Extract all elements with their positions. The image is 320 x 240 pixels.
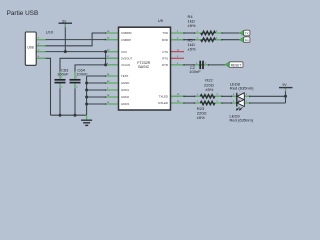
ground symbol — [81, 120, 92, 125]
svg-text:±5%: ±5% — [188, 46, 196, 51]
svg-text:Partie USB: Partie USB — [7, 10, 39, 17]
resistor R23 — [200, 101, 215, 104]
capacitor C63 — [55, 79, 66, 81]
net flag RX — [239, 37, 250, 43]
wire USB p4 down to ground bus — [36, 58, 51, 115]
svg-text:±5%: ±5% — [205, 87, 213, 92]
wire 5V-1 drop — [64, 23, 66, 51]
svg-text:TXLED: TXLED — [159, 94, 168, 98]
svg-text:RX: RX — [245, 38, 249, 42]
wire RXLED to LED9 to 5V — [171, 102, 286, 104]
green stub ground — [86, 115, 88, 119]
svg-text:CTS: CTS — [162, 50, 168, 54]
svg-text:VCCIO: VCCIO — [121, 63, 131, 67]
green stub C63 top — [59, 72, 61, 80]
green pin stubs IC right — [171, 33, 185, 103]
wire C63 top to 3V3OUT — [60, 58, 119, 79]
svg-text:TEST: TEST — [121, 74, 129, 78]
capacitor C2 — [199, 61, 201, 69]
USB connector J/U10 — [25, 32, 36, 65]
wire GND2 — [87, 96, 119, 98]
net flag TX — [239, 30, 250, 36]
svg-text:BASIC: BASIC — [138, 65, 149, 69]
svg-text:±5%: ±5% — [188, 23, 196, 28]
net flag RESET — [225, 62, 243, 68]
green stub C64 top — [74, 72, 76, 80]
svg-text:Red (635nm): Red (635nm) — [230, 86, 254, 91]
svg-text:USBDM: USBDM — [121, 31, 132, 35]
wire TXD to TX flag — [171, 32, 240, 34]
svg-text:5V: 5V — [283, 83, 288, 87]
svg-text:U10: U10 — [46, 29, 54, 34]
wire TXLED to LED8 to 5V — [171, 95, 286, 97]
svg-text:RXD: RXD — [162, 38, 168, 42]
resistor R4 — [201, 31, 216, 34]
green pin stubs IC left — [106, 33, 119, 104]
green stub C64 bottom — [74, 83, 76, 89]
capacitor C64 — [70, 79, 81, 81]
svg-text:GND3: GND3 — [121, 102, 129, 106]
green stub 5V-1 — [64, 23, 66, 27]
svg-text:DTR: DTR — [162, 63, 168, 67]
green stub 5V-2 — [285, 88, 287, 92]
svg-text:VCC: VCC — [121, 50, 127, 54]
5V symbol top — [59, 22, 73, 24]
green stub C63 bottom — [59, 83, 61, 89]
svg-text:GND1: GND1 — [121, 88, 129, 92]
wire TEST — [87, 75, 119, 77]
wire ground bottom bus — [51, 114, 87, 116]
svg-text:TX: TX — [245, 32, 249, 36]
wire C64 top to VCCIO — [75, 65, 119, 80]
red no-connect stubs CTS RTS — [171, 52, 185, 59]
LED8 — [236, 93, 244, 104]
wire GND1 — [87, 89, 119, 91]
wire RXD to RX flag — [171, 39, 240, 41]
svg-text:AGND: AGND — [121, 81, 129, 85]
wire C63 bottom to bus — [59, 83, 61, 116]
svg-text:U9: U9 — [158, 18, 164, 23]
wire VCC-VCCIO link — [105, 52, 107, 65]
junction dots — [59, 50, 288, 117]
resistor R5 — [201, 38, 216, 41]
svg-text:Red (635nm): Red (635nm) — [230, 118, 254, 123]
LED9 — [236, 100, 244, 111]
pin numbers (tiny) — [38, 31, 248, 104]
wire GND3 — [87, 103, 119, 105]
svg-text:5V: 5V — [62, 19, 67, 23]
svg-text:TXD: TXD — [162, 31, 168, 35]
wire AGND — [87, 82, 119, 84]
svg-text:USB: USB — [27, 45, 34, 49]
svg-text:100nF: 100nF — [189, 69, 201, 74]
wire USB p2 jog to USBDM — [36, 33, 119, 46]
svg-text:RESET: RESET — [231, 63, 242, 67]
green pin stubs USB connector — [36, 40, 46, 59]
wire GND comb vertical — [86, 76, 88, 115]
svg-text:RTS: RTS — [162, 57, 168, 61]
svg-text:USBDP: USBDP — [121, 38, 131, 42]
svg-text:RXLED: RXLED — [158, 101, 168, 105]
green stubs resistors R4 R5 — [195, 33, 250, 103]
5V symbol right — [279, 87, 293, 89]
wire USB p1 to USBDP — [36, 39, 119, 41]
wire 5V-2 drop — [285, 88, 287, 103]
resistor R22 — [200, 95, 215, 98]
svg-text:GND2: GND2 — [121, 95, 129, 99]
svg-text:3V3OUT: 3V3OUT — [121, 57, 132, 61]
IC U9 FT232R — [119, 27, 171, 110]
svg-text:100nF: 100nF — [76, 72, 88, 77]
wire joint dots — [105, 32, 251, 105]
svg-text:±5%: ±5% — [197, 115, 205, 120]
wire USB p3 to VCC (5V net) — [36, 51, 119, 53]
wire DTR to C2 to RESET flag — [171, 64, 226, 66]
wire C64 bottom to bus — [74, 83, 76, 116]
svg-text:100nF: 100nF — [57, 72, 69, 77]
